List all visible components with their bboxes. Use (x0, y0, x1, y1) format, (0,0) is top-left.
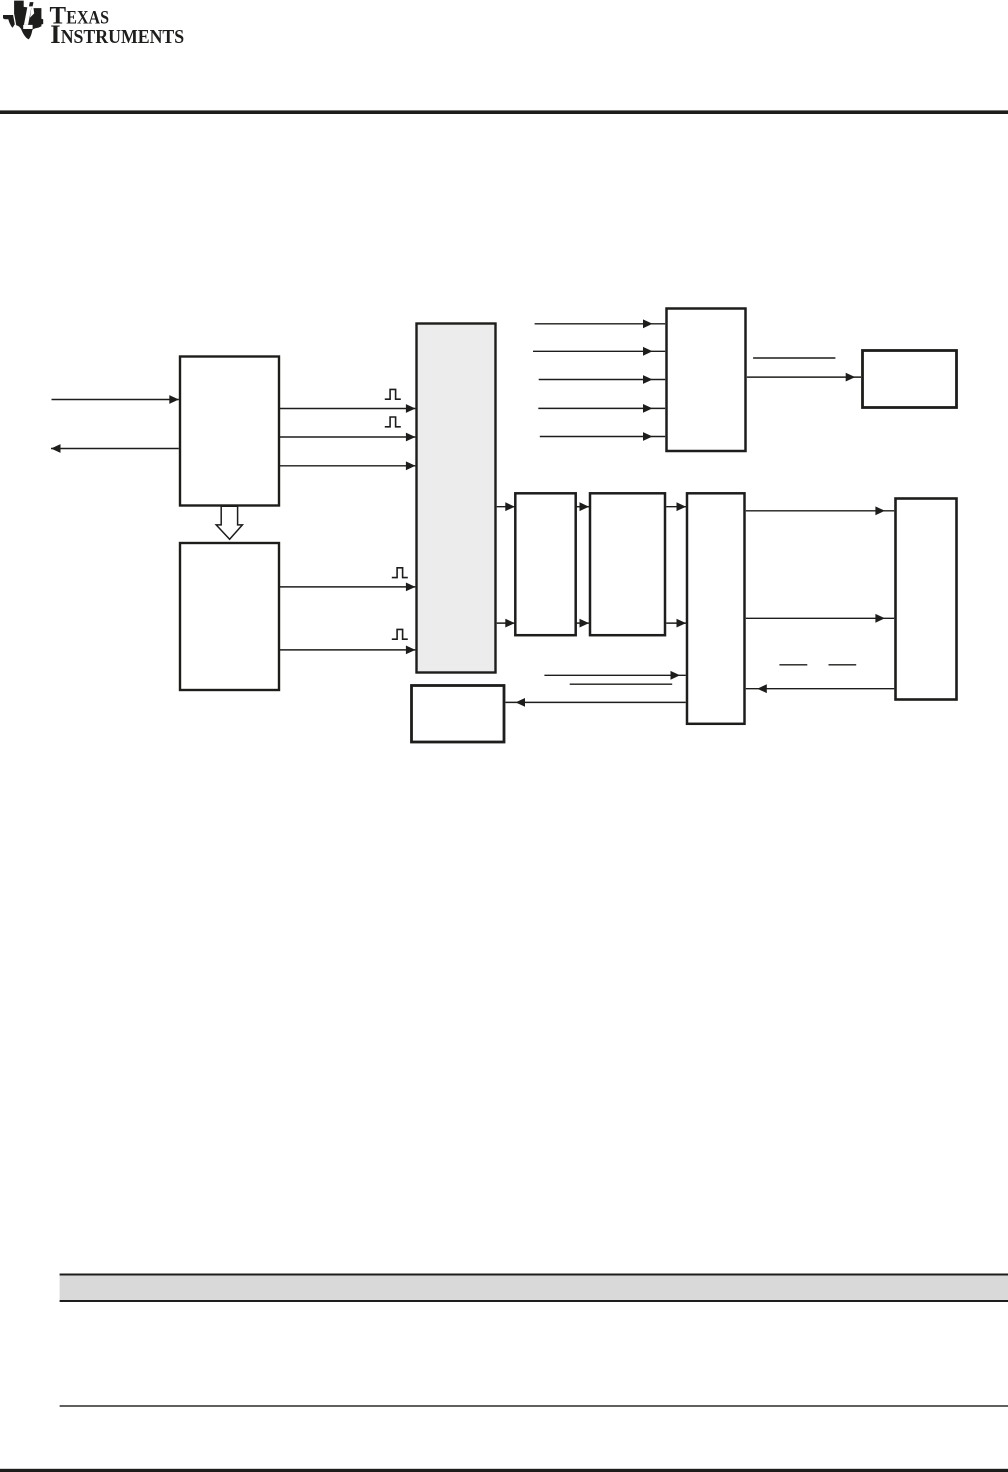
block OSC (412, 686, 505, 743)
wire A to B (bottom) (577, 619, 590, 628)
block A (515, 493, 575, 635)
table bottom line (60, 1405, 1008, 1406)
wire D back to C (746, 684, 894, 693)
white ti carved in bug (13, 7, 34, 29)
wire A to B (top) (577, 502, 590, 511)
wire B2 to GRAY (2) (280, 646, 415, 655)
wire B1 to GRAY (3) (280, 461, 415, 470)
wire GRAY to A (top) (497, 502, 515, 511)
block TR top-right (667, 309, 746, 452)
bottom page bar (0, 1469, 1008, 1472)
wire C to D (top) (746, 506, 894, 515)
wire B2 to GRAY (1) (280, 583, 415, 592)
wire TR to FR (747, 373, 861, 382)
wire B to C (bottom) (666, 619, 686, 628)
wire B1 to GRAY (2) (280, 433, 415, 442)
wire input into B1 (52, 395, 179, 404)
wire TR input 5 (540, 432, 665, 441)
block FR far-right small (863, 351, 957, 408)
wire GRAY to A (bottom) (497, 619, 515, 628)
svg-text:I: I (50, 19, 60, 49)
top rule (0, 110, 1008, 114)
label underline below C input (570, 683, 673, 685)
svg-text:NSTRUMENTS: NSTRUMENTS (61, 27, 185, 48)
block D far-right tall (896, 499, 957, 700)
wire TR input 2 (533, 347, 665, 356)
svg-text:EXAS: EXAS (66, 8, 109, 29)
block B2 lower-left (180, 543, 279, 690)
label dash 2 near D (829, 664, 857, 666)
hollow down arrow between B1 and B2 (216, 506, 242, 539)
wire TR input 3 (539, 375, 666, 384)
wire B to C (top) (666, 502, 686, 511)
wire input into C (544, 671, 685, 680)
wire TR input 1 (535, 319, 666, 328)
wire C to OSC (506, 698, 686, 707)
pulse symbols (385, 389, 408, 639)
block C (687, 493, 745, 724)
signal overline above TR-FR wire (753, 357, 835, 359)
block GRAY center bus (417, 324, 496, 673)
wire C to D (middle) (746, 614, 894, 623)
wire TR input 4 (538, 404, 665, 413)
table header band (60, 1276, 1008, 1301)
TI logo bug (3, 1, 43, 40)
block B (590, 493, 665, 635)
wire B1 to GRAY (1) (280, 404, 415, 413)
label dash 1 near D (779, 664, 807, 666)
block B1 top-left (180, 357, 279, 506)
wire output from B1 to left (51, 444, 179, 453)
